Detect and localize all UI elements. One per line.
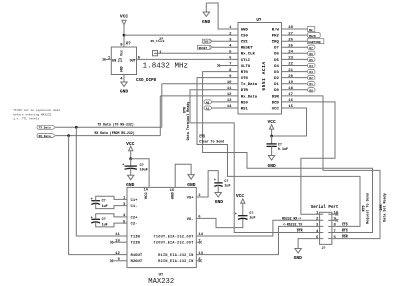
svg-text:J?: J? — [322, 247, 326, 251]
svg-text:RX Data (FROM RS-232): RX Data (FROM RS-232) — [95, 131, 135, 135]
svg-text:1uF: 1uF — [249, 217, 255, 221]
pin stub R2OUT (no connect) — [112, 260, 128, 262]
svg-text:VS-: VS- — [187, 218, 194, 222]
svg-text:OUT: OUT — [130, 60, 136, 64]
svg-text:Clear To Send: Clear To Send — [199, 140, 224, 144]
svg-text:0.1uF: 0.1uF — [278, 148, 288, 152]
svg-text:R2OUT: R2OUT — [131, 260, 143, 264]
junction VCC / C3 — [129, 157, 132, 160]
global label RW (pin 28) — [308, 27, 315, 32]
svg-text:C2+: C2+ — [131, 216, 139, 220]
wire RX drop to MAX232 R1OUT — [69, 136, 127, 255]
svg-text:T2OUT_EIA-232_OUT: T2OUT_EIA-232_OUT — [154, 242, 194, 246]
power flag VCC (MAX232 pin 16) — [126, 141, 135, 159]
svg-text:CS1: CS1 — [241, 41, 249, 45]
global label D5 (pin 23) — [308, 57, 316, 62]
svg-text:GND: GND — [267, 163, 276, 169]
wire MAX232 GND pin 15 hook — [175, 164, 191, 187]
no-connect X serial pin 10 — [336, 213, 339, 216]
wire oscillator OUT to 6551 XTLI — [137, 58, 239, 60]
svg-text:D1: D1 — [274, 83, 279, 87]
MAX232 pin numbers — [115, 189, 204, 262]
svg-text:D2: D2 — [274, 77, 279, 81]
svg-text:XLTO: XLTO — [241, 65, 251, 69]
wire C1- hook — [96, 204, 127, 209]
svg-text:XTLI: XTLI — [241, 59, 251, 63]
svg-text:DCD: DCD — [272, 101, 280, 105]
svg-text:25: 25 — [288, 45, 293, 49]
wire oscillator GND stub — [123, 75, 125, 83]
svg-text:C?: C? — [249, 212, 253, 216]
junction RX net — [67, 134, 70, 137]
global label IO2 (pin 3) — [203, 39, 213, 44]
MAX232 right pin names — [154, 196, 195, 264]
svg-text:C?: C? — [102, 218, 106, 222]
global label PH2O (pin 27) — [308, 33, 321, 38]
svg-text:Rx_Data: Rx_Data — [241, 95, 258, 99]
MAX232 top pin names VCC GND (rotated) — [145, 192, 175, 200]
wire serial pin 5 to GND — [298, 239, 320, 249]
svg-text:R1OUT: R1OUT — [131, 254, 143, 258]
svg-text:6551 ACIA: 6551 ACIA — [261, 61, 267, 90]
svg-text:14: 14 — [198, 233, 203, 237]
svg-text:RW: RW — [309, 29, 313, 32]
svg-text:Data Terminal Ready: Data Terminal Ready — [186, 102, 191, 141]
svg-text:Data Set Ready: Data Set Ready — [383, 193, 388, 222]
wire DSR net to serial pin 6 — [282, 96, 381, 239]
svg-text:VS+: VS+ — [187, 196, 195, 200]
svg-text:GND: GND — [120, 66, 124, 72]
svg-text:Request To Send: Request To Send — [365, 193, 370, 224]
IC U1 6551 ACIA body — [238, 19, 282, 114]
svg-text:27: 27 — [288, 32, 293, 36]
svg-text:11: 11 — [115, 233, 120, 237]
svg-text:DTR: DTR — [297, 229, 303, 233]
wire Rx_Data riser — [160, 96, 238, 136]
svg-text:MAX232: MAX232 — [148, 278, 174, 286]
svg-text:CS0: CS0 — [241, 35, 249, 39]
svg-text:12: 12 — [115, 252, 120, 256]
power flag VCC (oscillator/CS0) — [120, 14, 129, 25]
pin stub T2OUT (no connect) — [196, 241, 200, 243]
no-connect X 6551 XLTO pin 7 — [217, 64, 220, 67]
svg-text:23: 23 — [288, 57, 293, 61]
wire DTR net to serial pin 4 — [190, 90, 320, 233]
svg-text:D4: D4 — [274, 65, 279, 69]
svg-text:RESET: RESET — [241, 47, 253, 51]
svg-text:RTS: RTS — [241, 71, 249, 75]
svg-text:A1: A1 — [206, 108, 210, 111]
wire 6551 VCC pin 15 — [272, 108, 307, 136]
6551 right pin names — [272, 27, 280, 111]
svg-text:+: + — [122, 164, 124, 168]
svg-text:RX_Data: RX_Data — [39, 135, 51, 138]
svg-text:DSR: DSR — [272, 95, 280, 99]
connector J1 Serial Port body — [311, 205, 339, 251]
ground (MAX232 pin 15) — [187, 175, 196, 188]
wire VCC to MAX232 pin 16 — [131, 159, 149, 188]
svg-text:14: 14 — [227, 105, 232, 109]
svg-text:Tx_Data: Tx_Data — [241, 83, 258, 87]
wire RTS net to serial pin 7 — [203, 72, 373, 233]
global label RX_Data — [37, 134, 56, 138]
capacitor C6 1uF (polarized) — [235, 212, 256, 221]
svg-text:IRQ: IRQ — [272, 41, 280, 45]
no-connect X T2OUT — [199, 241, 202, 244]
junction VCC / C5 — [270, 135, 273, 138]
svg-text:CTS: CTS — [342, 223, 348, 227]
svg-text:CTS: CTS — [199, 135, 205, 139]
no-connect X T2IN — [110, 241, 113, 244]
pin stubs 6551 right side (28-18) — [282, 29, 308, 90]
svg-text:17: 17 — [288, 93, 293, 97]
svg-text:D5: D5 — [309, 59, 313, 62]
wire TX drop to MAX232 T1IN — [76, 127, 127, 236]
wire R1IN to serial pin 3 — [196, 226, 319, 254]
svg-text:GND: GND — [241, 28, 249, 32]
svg-text:U?: U? — [159, 274, 164, 278]
wire CTS net to serial pin 8 — [197, 78, 360, 227]
svg-text:RESET: RESET — [199, 47, 208, 50]
pin stub T2IN (no connect) — [112, 241, 128, 243]
svg-text:C1+: C1+ — [131, 199, 139, 203]
svg-text:Serial Port: Serial Port — [311, 205, 339, 210]
svg-text:12: 12 — [227, 93, 232, 97]
svg-text:24: 24 — [288, 51, 293, 55]
svg-text:D0: D0 — [274, 89, 279, 93]
note text TTL levels — [13, 108, 60, 121]
svg-text:D2: D2 — [309, 77, 313, 80]
pin stub R2IN (no connect) — [196, 260, 200, 262]
no-connect X R2OUT — [110, 259, 113, 262]
no-connect X oscillator pin 1 — [103, 58, 106, 61]
ground (C5) — [267, 156, 276, 169]
ground (C3) — [126, 175, 135, 188]
svg-text:TX/RX out to expansion data: TX/RX out to expansion data — [13, 108, 60, 112]
junction TX net — [75, 126, 78, 129]
svg-text:RTS: RTS — [342, 229, 348, 233]
svg-text:20: 20 — [288, 75, 293, 79]
global label D2 (pin 20) — [308, 75, 316, 80]
ground (6551 pin 1) — [202, 3, 211, 25]
svg-text:10: 10 — [115, 239, 120, 243]
net label DSR / Data Set Ready (rotated) — [380, 193, 388, 222]
svg-text:PH2O: PH2O — [309, 35, 316, 38]
capacitor C1 1uF (polarized) — [91, 198, 108, 209]
serial port pin numbers — [316, 212, 339, 240]
svg-text:EN: EN — [112, 60, 116, 64]
svg-text:VCC: VCC — [145, 192, 149, 200]
wire DCD net to serial pin 1 — [282, 102, 336, 214]
svg-text:RX_Clock: RX_Clock — [151, 39, 165, 43]
svg-text:21: 21 — [288, 69, 293, 73]
svg-text:GND: GND — [126, 182, 135, 188]
svg-text:GND: GND — [187, 182, 196, 188]
svg-text:D7: D7 — [309, 47, 313, 50]
svg-text:15: 15 — [288, 105, 293, 109]
svg-text:26: 26 — [288, 38, 293, 42]
junction VCC/CS0 — [123, 34, 126, 37]
global label D6 (pin 24) — [308, 51, 316, 56]
6551 left pin names — [241, 28, 258, 111]
wire T1OUT to serial pin 2 — [196, 220, 319, 236]
svg-text:IO2: IO2 — [203, 41, 208, 44]
power flag VCC (C6) — [236, 193, 245, 216]
svg-text:T1IN: T1IN — [131, 235, 141, 239]
MAX232 left pin names — [131, 199, 143, 264]
IC U2 MAX232 body — [127, 187, 196, 286]
svg-text:T2IN: T2IN — [131, 242, 141, 246]
svg-text:19: 19 — [288, 81, 293, 85]
svg-text:before entering MAX232: before entering MAX232 — [13, 112, 51, 116]
svg-text:VCC: VCC — [120, 14, 129, 20]
svg-text:22: 22 — [288, 63, 293, 67]
svg-text:+: + — [91, 217, 93, 221]
svg-text:D3: D3 — [274, 71, 279, 75]
oscillator X1 CXO_DIP8 — [108, 43, 141, 82]
svg-text:GND: GND — [294, 255, 303, 261]
global label D4 (pin 22) — [308, 63, 316, 68]
svg-text:13: 13 — [198, 252, 203, 256]
svg-text:CTS: CTS — [241, 77, 249, 81]
wire CS0 to 6551 pin 2 — [124, 34, 238, 36]
svg-text:D3: D3 — [309, 71, 313, 74]
svg-text:28: 28 — [288, 26, 293, 30]
svg-text:RS1: RS1 — [241, 107, 249, 111]
capacitor C5 0.1uF — [267, 136, 289, 156]
svg-text:10uF: 10uF — [140, 169, 148, 173]
no-connect X serial pin 9 — [336, 219, 339, 222]
net label RTS / Request To Send (rotated) — [363, 193, 371, 224]
global label D7 (pin 25) — [308, 45, 316, 50]
svg-text:TX Data (TO RS-232): TX Data (TO RS-232) — [97, 122, 133, 126]
global label D1 (pin 19) — [308, 82, 316, 87]
svg-text:Rx.CLK: Rx.CLK — [241, 53, 256, 57]
svg-text:DSR: DSR — [342, 235, 348, 239]
svg-text:11: 11 — [227, 87, 232, 91]
svg-text:TX_Data: TX_Data — [39, 127, 51, 130]
wire C1+ hook — [96, 196, 127, 201]
global label A0 (pin 13) — [204, 100, 212, 105]
svg-text:D4: D4 — [309, 65, 313, 68]
svg-text:R/W: R/W — [272, 27, 280, 32]
wire VS- to C6 — [196, 218, 243, 227]
svg-text:R2IN_EIA-232_IN: R2IN_EIA-232_IN — [158, 260, 193, 264]
no-connect X R2IN — [199, 259, 202, 262]
svg-text:GND: GND — [215, 199, 224, 205]
6551 right pin numbers — [288, 26, 293, 109]
6551 left pin numbers — [227, 26, 232, 109]
svg-text:13: 13 — [227, 99, 232, 103]
svg-text:UARTIRQ: UARTIRQ — [308, 41, 320, 44]
global label UARTIRQ (pin 26) — [308, 39, 324, 44]
wire Tx_Data riser — [162, 84, 238, 128]
svg-text:D1: D1 — [309, 83, 313, 86]
svg-text:U?: U? — [256, 19, 262, 23]
svg-text:D6: D6 — [274, 53, 279, 57]
svg-text:C2-: C2- — [131, 223, 138, 227]
svg-text:CXO_DIP8: CXO_DIP8 — [136, 79, 157, 83]
svg-text:DTR: DTR — [241, 89, 249, 93]
capacitor C3 10uF — [122, 159, 148, 176]
global label D3 (pin 21) — [308, 69, 316, 74]
svg-text:VCC: VCC — [272, 107, 280, 111]
net label CTS / Clear To Send — [199, 135, 224, 144]
svg-text:D5: D5 — [274, 59, 279, 63]
global label TX_Data — [37, 125, 56, 129]
wire RX data run — [56, 135, 160, 137]
svg-text:D6: D6 — [309, 53, 313, 56]
pin stub XLTO — [219, 65, 238, 67]
svg-text:C?: C? — [278, 144, 282, 148]
serial port inner pin stubs — [320, 214, 332, 238]
ground (oscillator) — [120, 82, 129, 95]
svg-text:GND: GND — [202, 19, 211, 25]
svg-text:18: 18 — [288, 87, 293, 91]
svg-text:R1IN_EIA-232_IN: R1IN_EIA-232_IN — [158, 254, 193, 258]
wire C2- hook — [96, 222, 127, 227]
global label D0 (pin 18) — [308, 88, 316, 93]
wire RX_Clock to 6551 Rx.CLK — [158, 52, 239, 54]
wire A0 to 6551 pin 13 — [212, 101, 239, 103]
svg-text:C1-: C1- — [131, 205, 138, 209]
svg-text:C?: C? — [102, 199, 106, 203]
wire A1 to 6551 pin 14 — [212, 107, 239, 109]
svg-text:D7: D7 — [274, 47, 279, 51]
global label RESET (pin 4) — [198, 45, 213, 50]
pin stub oscillator EN (no connect) — [104, 58, 111, 60]
pin stub serial pin 9 (no connect) — [332, 219, 337, 221]
svg-text:X?: X? — [126, 43, 132, 47]
svg-text:1uF: 1uF — [224, 184, 230, 188]
connector J2 RX_Clock — [151, 38, 165, 56]
net label DTR / Data Terminal Ready (rotated) — [183, 102, 191, 141]
wire VS+ to C4 — [196, 171, 218, 197]
svg-text:RS0: RS0 — [241, 101, 249, 105]
svg-text:Vcc: Vcc — [120, 50, 124, 56]
svg-text:GND: GND — [120, 89, 129, 95]
svg-text:+: + — [235, 213, 237, 217]
svg-text:C?: C? — [224, 180, 228, 184]
wire IO2 to 6551 pin 3 — [212, 40, 238, 42]
capacitor C4 1uF (polarized) — [214, 179, 231, 192]
svg-text:C?: C? — [140, 164, 144, 168]
wire VCC stem to oscillator pin 8 — [123, 25, 125, 47]
power flag VCC (6551) — [267, 119, 276, 136]
svg-text:16: 16 — [144, 189, 149, 193]
wire TX data run — [56, 126, 162, 128]
svg-text:PH2: PH2 — [272, 35, 280, 39]
global label A1 (pin 14) — [204, 106, 212, 111]
svg-text:10: 10 — [227, 81, 232, 85]
svg-text:T1OUT_EIA-232_OUT: T1OUT_EIA-232_OUT — [154, 235, 194, 239]
svg-text:16: 16 — [288, 99, 293, 103]
capacitor C2 1uF (polarized) — [91, 217, 108, 228]
wire C2+ hook — [96, 214, 127, 220]
pin stub serial pin 10 (no connect) — [332, 213, 337, 215]
svg-text:15: 15 — [170, 189, 175, 193]
ground (serial pin 5) — [294, 249, 303, 262]
ground (C4) — [215, 193, 224, 205]
svg-text:D0: D0 — [309, 89, 313, 92]
svg-text:i.e. TTL levels: i.e. TTL levels — [13, 117, 39, 121]
svg-text:1.8432 MHz: 1.8432 MHz — [143, 62, 189, 70]
wire RESET to 6551 pin 4 — [212, 46, 238, 48]
svg-text:A0: A0 — [206, 101, 210, 104]
wire GND to 6551 pin 1 — [206, 3, 238, 29]
